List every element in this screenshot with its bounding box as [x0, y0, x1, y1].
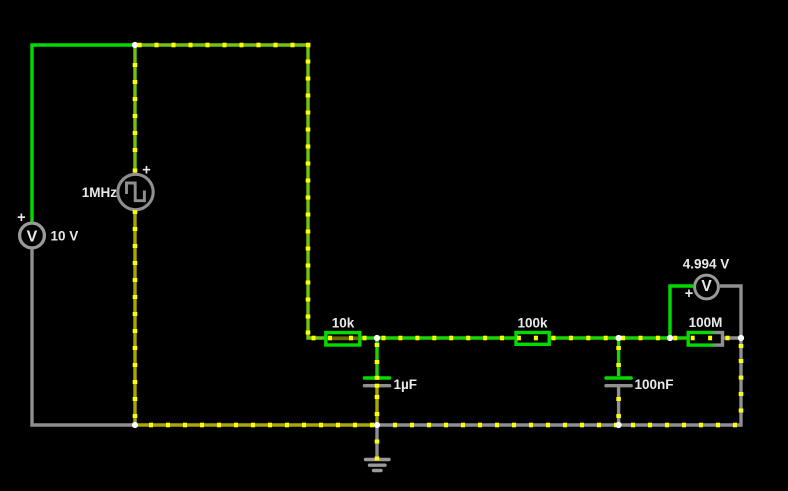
capacitor C1 1uF: [364, 378, 389, 386]
plus sign V1: [17, 210, 25, 226]
wire V1 bottom gray L to bottom-left junction: [32, 249, 135, 425]
wire square-source top lead (135,45)-(135,173): [133, 45, 138, 173]
C2 bottom junction: [616, 422, 622, 428]
capacitor C1 1uF top lead: [375, 338, 380, 376]
wire bottom olive horizontal (135,425)-(377,425): [135, 423, 377, 428]
svg-text:4.994 V: 4.994 V: [683, 257, 730, 272]
svg-text:1MHz: 1MHz: [82, 185, 118, 200]
capacitor C1 bottom lead: [375, 376, 380, 425]
plus sign M1: [685, 286, 693, 302]
voltmeter tap junction: [667, 335, 673, 341]
wire main horizontal (361.5,338)-(514,338): [362, 336, 515, 341]
wire top horizontal node A (135,45)-(308,45) with current dots: [135, 43, 325, 338]
wire main horizontal (551,338)-(670,338): [551, 336, 670, 341]
svg-text:+: +: [685, 286, 693, 302]
wire voltmeter left loop green: [670, 286, 693, 338]
wire ground stub: [375, 425, 380, 459]
wire square-source bottom lead olive (135,211)-(135,425): [133, 210, 138, 425]
capacitor C2 100nF: [606, 378, 631, 386]
wire bottom gray horizontal (377,425)-(741,425): [377, 423, 741, 428]
plus sign VS2: [142, 163, 150, 179]
wire right vertical (308,45)-(308,338) with current dots: [306, 60, 311, 335]
C1 tap junction: [374, 335, 380, 341]
resistor R1 10k: [326, 333, 360, 345]
svg-text:100M: 100M: [689, 315, 723, 330]
svg-text:10k: 10k: [332, 316, 355, 331]
value label 100M: [689, 315, 723, 330]
right junction: [738, 335, 744, 341]
square wave source VS2 1MHz: [118, 174, 153, 209]
svg-text:1µF: 1µF: [394, 377, 418, 392]
value label 1MHz: [82, 185, 118, 200]
wire stub (724,338)-(741,338) gray: [724, 336, 741, 341]
svg-text:100nF: 100nF: [635, 377, 674, 392]
voltage source V1 10V: [20, 223, 45, 248]
C2 tap junction: [616, 335, 622, 341]
capacitor C2 bottom lead: [616, 387, 621, 425]
svg-text:V: V: [27, 229, 38, 246]
resistor R3 100M: [688, 333, 722, 346]
wire stub (670,338)-(686,338) into R3: [670, 336, 687, 341]
svg-text:10 V: 10 V: [51, 229, 79, 244]
value label 100k: [517, 316, 548, 331]
value label 100nF: [635, 377, 674, 392]
wire voltmeter right loop gray: [720, 286, 741, 338]
svg-text:100k: 100k: [517, 316, 548, 331]
svg-text:+: +: [17, 210, 25, 226]
current dot on ground lead: [375, 457, 380, 461]
capacitor C2 100nF top lead: [616, 338, 621, 376]
ground: [366, 460, 390, 471]
ground tap junction: [374, 422, 380, 428]
wire right gray vertical (741,338)-(741,425): [739, 338, 744, 427]
svg-text:+: +: [142, 163, 150, 179]
resistor R2 100k: [516, 333, 549, 345]
bottom-left junction: [132, 422, 138, 428]
node A junction: [132, 42, 138, 48]
wire top-left L (V1 plus up and right to node A): [32, 45, 135, 222]
voltmeter M1: [695, 275, 719, 299]
value label 10k: [332, 316, 355, 331]
wire stub (308,338)-(324,338) into R1: [312, 336, 316, 341]
svg-text:V: V: [701, 278, 712, 295]
value label 1uF: [394, 377, 418, 392]
value label 10 V: [51, 229, 79, 244]
reading label 4.994 V: [683, 257, 730, 272]
